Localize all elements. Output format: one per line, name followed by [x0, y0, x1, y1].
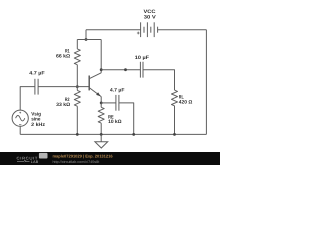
svg-text:10 µF: 10 µF: [135, 55, 149, 61]
label: R1 66 kOhm: [56, 48, 70, 59]
wire: emitter down: [100, 97, 102, 103]
wire: R1 top to collector feed: [77, 39, 101, 41]
capacitor C1 4.7 uF input: [35, 79, 38, 95]
node A: junction dot VCC stub: [85, 38, 88, 41]
wire: collector feed drop: [100, 40, 102, 73]
source Vsig sine: [12, 110, 28, 126]
wire: emitter node to C3: [101, 102, 116, 104]
node C: collector junction dot: [100, 68, 103, 71]
junction dot R2-ground rail: [76, 133, 79, 136]
wire: Vsig bottom to ground rail: [19, 126, 21, 134]
capacitor C3 4.7 uF bypass: [116, 95, 119, 111]
svg-text:30 V: 30 V: [144, 14, 157, 20]
svg-text:sine: sine: [31, 117, 41, 123]
resistor RL: [172, 90, 178, 134]
footer logo CIRCUIT LAB: [17, 153, 48, 164]
wire: VCC top rail to battery positive: [86, 29, 141, 31]
wire: C1 left to Vsig top: [20, 87, 35, 110]
svg-text:66 kΩ: 66 kΩ: [56, 53, 70, 59]
battery V1 VCC: [137, 22, 158, 37]
svg-text:http://circuitlab.com/c/745s8t: http://circuitlab.com/c/745s8t: [53, 160, 100, 164]
resistor RE: [98, 103, 104, 134]
wire: base node to transistor: [38, 86, 89, 88]
wire: VCC stub down: [85, 30, 87, 40]
wire: C2 to RL top: [143, 70, 175, 90]
label: R2 33 kOhm: [56, 97, 70, 108]
wire: battery negative to top-right corner: [158, 29, 207, 31]
label: Vsig sine 2 kHz: [31, 112, 45, 128]
resistor R2: [74, 87, 80, 135]
footer watermark bar: [0, 152, 220, 165]
svg-text:10 kΩ: 10 kΩ: [108, 119, 122, 125]
wire: collector to C2: [101, 69, 140, 71]
label: VCC 30 V: [144, 9, 157, 20]
wire: C3 right to ground rail: [119, 103, 134, 134]
transistor Q1 NPN: [89, 73, 101, 97]
svg-text:2 kHz: 2 kHz: [31, 122, 45, 128]
svg-text:4.7 µF: 4.7 µF: [110, 87, 125, 93]
resistor R1: [74, 40, 80, 87]
svg-text:VCC: VCC: [144, 9, 157, 15]
wire: bottom ground rail: [20, 133, 206, 135]
junction dot C3-ground rail: [132, 133, 135, 136]
node B: base junction dot: [76, 85, 79, 88]
label: RL 420 Ohm: [179, 94, 193, 105]
node E: emitter junction dot: [100, 102, 103, 105]
junction dot RL-ground rail: [173, 133, 176, 136]
svg-text:420 Ω: 420 Ω: [179, 99, 193, 105]
wire: right edge down from VCC-: [205, 30, 207, 135]
svg-text:33 kΩ: 33 kΩ: [56, 102, 70, 108]
junction dot RE-ground rail: [100, 133, 103, 136]
svg-text:4.7 µF: 4.7 µF: [29, 71, 44, 77]
svg-text:LAB: LAB: [31, 160, 39, 164]
svg-text:maple07291029 | Exp. 20131216: maple07291029 | Exp. 20131216: [53, 154, 114, 159]
ground: [95, 134, 108, 148]
node D: dot on collector wire: [124, 68, 127, 71]
capacitor C2 10 uF: [140, 62, 143, 78]
label: RE 10 kOhm: [108, 114, 122, 125]
